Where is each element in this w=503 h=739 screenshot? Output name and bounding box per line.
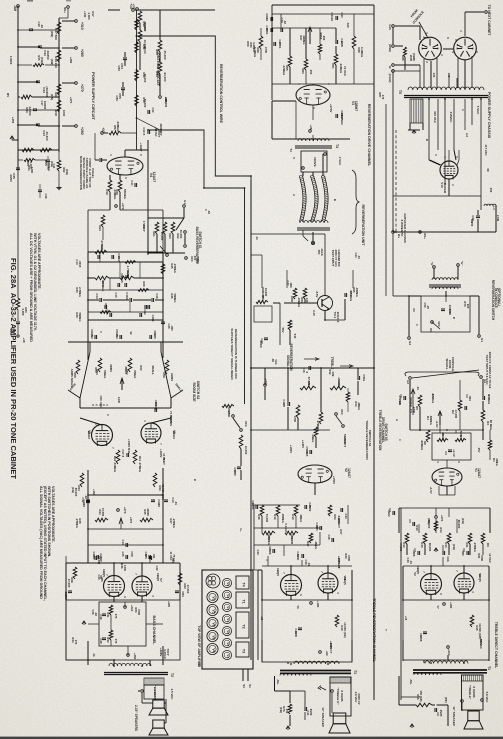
capacitor C20 .02 (270, 17, 272, 21)
svg-text:G2: G2 (408, 341, 412, 345)
resistor R23 (163, 222, 167, 234)
capacitor C19 (151, 499, 155, 501)
svg-text:C64: C64 (181, 591, 185, 597)
resistor R53 arms (98, 358, 102, 372)
svg-text:L1: L1 (492, 206, 496, 210)
resistor M2 (423, 533, 427, 544)
svg-text:.1MEG: .1MEG (299, 514, 303, 522)
svg-text:4 OHMS: 4 OHMS (153, 689, 157, 701)
capacitor C9M 25/25 (434, 708, 436, 712)
svg-text:+260: +260 (80, 127, 84, 135)
resistor R24 (101, 215, 105, 227)
svg-text:C16: C16 (155, 293, 159, 299)
capacitor C17j (287, 402, 289, 406)
svg-text:12AX7: 12AX7 (347, 468, 351, 478)
socket V4b (207, 643, 218, 654)
svg-text:T2: T2 (242, 624, 246, 628)
socket col2 V2 (222, 590, 231, 599)
transformer T2 secondary box BASS 4 OHMS (144, 678, 164, 685)
capacitor C43 (18, 81, 38, 83)
svg-text:+280: +280 (80, 49, 84, 57)
svg-text:.35MEG: .35MEG (281, 513, 285, 523)
label +90L (319, 651, 322, 654)
tube V8 6BQ5 bass (132, 576, 152, 596)
j extra parts (308, 366, 310, 370)
capacitor C58 .005 (68, 590, 72, 592)
svg-text:C38: C38 (327, 535, 331, 540)
svg-text:.5MEG: .5MEG (103, 370, 107, 379)
svg-text:22,000: 22,000 (28, 107, 32, 116)
capacitor C25 (270, 28, 272, 32)
svg-text:4700: 4700 (293, 416, 297, 423)
label +26 (309, 130, 312, 133)
svg-text:1200: 1200 (30, 167, 34, 173)
svg-text:R: R (425, 139, 429, 141)
resistor R42 (138, 30, 142, 42)
resistor R43 (153, 473, 157, 487)
capacitor C41 (46, 159, 50, 161)
svg-text:3.3MEG: 3.3MEG (360, 47, 364, 57)
svg-text:(1W): (1W) (71, 487, 75, 493)
svg-text:.01: .01 (409, 560, 413, 564)
terminal g b (457, 264, 460, 267)
svg-text:WITH VTVM, G1 & G2 GROUNDED.: WITH VTVM, G1 & G2 GROUNDED. LINE VOLTAG… (33, 233, 37, 331)
wire L top (254, 504, 300, 506)
resistor R39 47000 (73, 567, 77, 579)
resistor R2 k (458, 400, 462, 411)
socket col2 V5 (222, 638, 231, 647)
terminal sec bass (141, 690, 144, 693)
terminal pin jack (311, 241, 314, 244)
svg-text:.02: .02 (265, 17, 269, 21)
svg-text:(1W): (1W) (279, 707, 283, 713)
terminal G4 (480, 376, 483, 379)
svg-text:ARMS SMALL: ARMS SMALL (70, 369, 74, 388)
svg-text:25/25: 25/25 (439, 710, 443, 717)
svg-text:V2: V2 (413, 572, 417, 576)
svg-text:+220: +220 (167, 601, 171, 608)
resistor R45 43000 h (140, 518, 153, 522)
wire M xfmr feed (423, 660, 425, 663)
svg-text:+140: +140 (83, 11, 87, 18)
svg-text:R31: R31 (104, 304, 108, 309)
wire L row wires (254, 527, 320, 529)
svg-text:R: R (452, 317, 456, 319)
svg-text:.02: .02 (84, 495, 88, 499)
svg-text:G1: G1 (480, 338, 484, 342)
svg-text:200: 200 (322, 36, 326, 41)
resistor rowL 1 (260, 505, 264, 516)
tone row parts 262 (125, 261, 136, 264)
capacitor C45 (17, 160, 19, 168)
socket col2 V9 (222, 578, 231, 587)
svg-text:+270: +270 (440, 515, 444, 522)
resistor R18 (57, 50, 61, 62)
svg-text:+4.1V: +4.1V (452, 449, 456, 457)
svg-text:270: 270 (114, 639, 118, 644)
svg-text:G: G (395, 419, 399, 421)
svg-text:20/50: 20/50 (9, 174, 13, 182)
capacitor C40L 3300 (298, 627, 302, 629)
capacitor C36L (319, 526, 321, 530)
wire ps left terms (395, 70, 420, 72)
switch contact off (232, 415, 235, 418)
capacitor C35 .0002 (304, 505, 306, 509)
wire control bus (136, 10, 138, 150)
svg-text:R52: R52 (139, 366, 143, 371)
svg-text:2.5 VAC: 2.5 VAC (170, 689, 174, 701)
svg-text:WITH SWITCHES IN POSITIONS SHO: WITH SWITCHES IN POSITIONS SHOWN. (47, 486, 51, 557)
wire L upper verticals (261, 516, 263, 533)
resistor R20 (57, 84, 61, 95)
resistor R17 (57, 22, 61, 34)
svg-text:200: 200 (309, 70, 313, 75)
svg-text:R31: R31 (106, 612, 110, 618)
svg-text:SIGNAL: SIGNAL (286, 355, 290, 367)
resistor rowL 2 (276, 505, 280, 516)
svg-text:+270: +270 (80, 84, 84, 92)
svg-text:GR/OHM 600: GR/OHM 600 (337, 250, 341, 267)
wire rect plumbing (429, 160, 440, 165)
wire console feeds (392, 27, 394, 44)
svg-text:55MEG: 55MEG (123, 189, 127, 200)
svg-text:8 OHMS: 8 OHMS (472, 686, 476, 697)
svg-text:9.4V: 9.4V (312, 310, 316, 316)
svg-text:+140V: +140V (301, 440, 305, 448)
svg-text:.18MEG: .18MEG (355, 287, 359, 297)
wire M col drop (448, 508, 450, 517)
svg-text:+26: +26 (309, 125, 313, 130)
terminal +270 (75, 82, 78, 85)
label +220 (124, 606, 127, 609)
resistor R3 (481, 410, 485, 422)
svg-text:10,000: 10,000 (264, 288, 268, 297)
svg-text:12BH7: 12BH7 (354, 101, 358, 111)
switch S2 right wafer (161, 342, 183, 398)
arrow signal up (412, 390, 414, 415)
svg-text:6.8US: 6.8US (169, 418, 173, 426)
svg-text:5.6 VAC: 5.6 VAC (485, 692, 489, 704)
resistor R48 3.3MEG right (352, 36, 356, 49)
svg-text:C52: C52 (151, 108, 155, 113)
wire v4 bass net (87, 210, 89, 252)
svg-text:2.7MEG: 2.7MEG (126, 266, 130, 277)
svg-text:.0068: .0068 (419, 635, 423, 642)
svg-text:VAC: VAC (274, 359, 278, 365)
svg-text:.5: .5 (142, 133, 146, 136)
resistor R41 mid (133, 450, 137, 464)
svg-text:C: C (415, 324, 419, 326)
svg-text:V7: V7 (436, 605, 440, 609)
svg-text:TO NEXT CABINET: TO NEXT CABINET (487, 5, 491, 37)
svg-text:POWER SUPPLY CIRCUIT: POWER SUPPLY CIRCUIT (91, 72, 96, 120)
svg-text:600/6: 600/6 (259, 341, 263, 348)
switch off j (335, 413, 338, 416)
svg-text:T3: T3 (353, 670, 357, 674)
junction dots 2 (136, 35, 138, 37)
svg-text:5,000: 5,000 (21, 309, 25, 316)
wire bass speakers (141, 693, 143, 703)
resistor R32 270 (109, 630, 113, 640)
svg-text:REVERBERATION UNIT: REVERBERATION UNIT (361, 205, 365, 247)
svg-text:TREBLE DIRECT CHANNEL: TREBLE DIRECT CHANNEL (494, 622, 498, 669)
svg-text:45V: 45V (477, 448, 481, 453)
svg-text:S3: S3 (242, 684, 246, 688)
terminal OFF (185, 257, 188, 260)
junction dots (17, 46, 19, 48)
resistor R66 .1MEG (330, 386, 346, 390)
resistor R19c (108, 180, 112, 192)
svg-text:70 CY: 70 CY (162, 457, 166, 465)
capacitor C52 ctl (147, 110, 149, 114)
wire tone stack verticals (99, 252, 101, 262)
svg-text:R17: R17 (91, 11, 95, 17)
arrow bass mid (119, 518, 123, 524)
wire tone box left (87, 252, 89, 342)
svg-text:120: 120 (432, 73, 436, 78)
svg-text:150VAC: 150VAC (340, 115, 344, 125)
wire control drop (139, 23, 141, 30)
resistor R60 200 (304, 59, 308, 70)
wire tr1 net (273, 302, 280, 304)
svg-text:12 VAC: 12 VAC (488, 553, 492, 563)
svg-text:1000: 1000 (340, 41, 344, 48)
svg-text:12AX7: 12AX7 (152, 172, 156, 183)
svg-text:47,000: 47,000 (186, 585, 190, 594)
svg-text:.0001: .0001 (154, 400, 158, 407)
capacitor C21 (94, 556, 96, 560)
capacitor C55 (121, 87, 125, 89)
socket V6 (207, 617, 218, 628)
wire g box inner (272, 83, 374, 85)
svg-text:.02: .02 (207, 210, 211, 214)
svg-text:.68MEG: .68MEG (420, 440, 424, 450)
svg-text:R19: R19 (273, 514, 277, 520)
wire T5 drops (430, 61, 432, 88)
wire ps loop (480, 99, 482, 196)
wire M stage (402, 566, 404, 600)
svg-text:+15: +15 (404, 616, 408, 621)
svg-text:2000 CY, FROM A3 TO G2: 2000 CY, FROM A3 TO G2 (488, 352, 492, 389)
tube 6BQ5 M2 (454, 573, 474, 593)
terminal +32 input (101, 132, 104, 135)
svg-text:.02: .02 (330, 17, 334, 21)
svg-text:3.3MEG: 3.3MEG (252, 42, 256, 52)
svg-text:68 MEG: 68 MEG (489, 420, 493, 430)
wire L box (257, 570, 259, 660)
svg-text:40/450: 40/450 (46, 51, 50, 60)
svg-text:OFF: OFF (437, 321, 441, 327)
wire M upper verticals (398, 517, 400, 533)
capacitor C44 (18, 124, 38, 126)
svg-text:+180: +180 (316, 601, 320, 608)
wire cathode V4 (109, 175, 111, 180)
svg-text:V8: V8 (212, 635, 216, 639)
transformer T5 sec 1 (410, 99, 423, 123)
svg-text:C3: C3 (444, 451, 448, 455)
terminal MV top (67, 6, 70, 9)
svg-text:V3: V3 (226, 606, 230, 610)
svg-text:ALL DC VOLTAGES ARE + FROM GRO: ALL DC VOLTAGES ARE + FROM GROUND & ARE … (29, 233, 33, 342)
svg-text:(1W): (1W) (461, 518, 465, 524)
capacitor C22 .0001 (335, 40, 337, 44)
svg-text:ARMS: ARMS (109, 364, 113, 372)
svg-text:T5: T5 (398, 90, 402, 94)
resistor R27 top (95, 250, 107, 254)
svg-text:44: 44 (255, 237, 259, 240)
capacitor C54A (119, 335, 121, 339)
svg-text:R13: R13 (444, 542, 448, 548)
svg-text:.004: .004 (468, 395, 472, 401)
resistor R60 1000 box (256, 300, 268, 303)
resistor M3 (447, 533, 451, 544)
svg-text:.0068: .0068 (268, 548, 272, 555)
capacitor C61A (94, 335, 96, 339)
wire k net2 (439, 425, 441, 433)
svg-text:T4: T4 (335, 144, 339, 148)
resistor R62 4300 (293, 288, 297, 299)
capacitor C10 (147, 130, 149, 134)
tube V2 12AX7 (298, 465, 332, 483)
svg-text:.02: .02 (94, 612, 98, 616)
resistor R5 4700 (418, 395, 422, 407)
svg-text:415 VAC: 415 VAC (433, 111, 437, 124)
svg-text:V4: V4 (226, 654, 230, 658)
svg-text:.005: .005 (461, 550, 465, 556)
svg-text:S2: S2 (197, 663, 201, 667)
reverb spring 3 (321, 176, 325, 222)
svg-text:T1: T1 (487, 666, 491, 670)
svg-text:150: 150 (285, 709, 289, 714)
wire tr1 feed (251, 233, 318, 235)
capacitor C45b (16, 321, 20, 323)
svg-text:REVERBERATION CONTROL WIRE: REVERBERATION CONTROL WIRE (219, 64, 223, 124)
svg-text:+32: +32 (101, 127, 105, 133)
svg-text:.27MEG: .27MEG (487, 394, 491, 404)
svg-text:A60: A60 (346, 23, 350, 28)
resistor R64 540 (288, 320, 292, 330)
svg-text:.27MEG: .27MEG (473, 542, 477, 552)
resistor R30 mid (120, 276, 134, 280)
chassis arrow bass (82, 621, 86, 624)
wire x386 (385, 104, 387, 296)
capacitor C38 45MEG (344, 293, 346, 297)
svg-text:117 VAC: 117 VAC (484, 145, 488, 156)
svg-text:270: 270 (74, 640, 78, 645)
resistor R19j (319, 412, 323, 424)
capacitor C27 .001 (148, 555, 150, 559)
M upper extra parts (481, 533, 485, 544)
svg-text:4700: 4700 (227, 411, 231, 418)
capacitor C17 mid (126, 453, 128, 457)
capacitor C40 3300 (301, 554, 303, 558)
svg-text:+270: +270 (123, 507, 127, 514)
svg-text:R10: R10 (291, 514, 295, 520)
svg-text:R39: R39 (115, 189, 119, 195)
svg-text:+90: +90 (325, 651, 329, 656)
svg-text:415VAC: 415VAC (449, 112, 453, 124)
resistor R44 47000 h (95, 518, 108, 522)
capacitor 33/150 (441, 308, 445, 310)
svg-text:.0015: .0015 (78, 261, 82, 268)
arrow from console (419, 22, 427, 36)
speaker bass 2 (149, 720, 168, 735)
tube 6BQ5 M1 (421, 574, 442, 595)
wire tl tie2 (18, 64, 32, 66)
svg-text:REVERBERATION DRIVE CHANNEL: REVERBERATION DRIVE CHANNEL (367, 104, 371, 167)
transistor TR-1 2N1413 (318, 296, 333, 311)
svg-text:"G": "G" (430, 262, 434, 268)
svg-text:OFF: OFF (244, 421, 248, 427)
wire M top (399, 507, 490, 509)
wire bass col left (65, 600, 67, 660)
resistor R67 87000 (300, 386, 316, 390)
svg-text:(OPTIONAL): (OPTIONAL) (497, 288, 501, 306)
svg-text:47B: 47B (331, 372, 335, 377)
svg-text:4700: 4700 (130, 551, 134, 557)
transformer T3 core (280, 670, 351, 672)
resistor R88 2000 (404, 47, 407, 57)
svg-text:C: C (461, 109, 465, 111)
svg-text:(G1A2): (G1A2) (388, 74, 392, 83)
rectifier tube big 1 (419, 37, 442, 60)
svg-text:SWITCH S1: SWITCH S1 (198, 231, 202, 248)
block T3 (236, 642, 249, 657)
capacitor C7L (272, 549, 274, 553)
box bass output stage (66, 600, 180, 660)
svg-text:C14: C14 (121, 540, 125, 545)
wire stair B (137, 36, 252, 182)
capacitor C46 grid (99, 158, 101, 162)
svg-text:.1MEG: .1MEG (357, 402, 361, 410)
transformer T4 core (295, 145, 332, 147)
svg-text:R60: R60 (301, 68, 305, 74)
terminal -AM (17, 5, 20, 8)
block T4 (236, 576, 249, 589)
svg-text:C25: C25 (121, 552, 125, 557)
svg-text:.001: .001 (152, 554, 156, 560)
svg-text:+270: +270 (129, 517, 133, 524)
svg-text:(OND): (OND) (388, 44, 392, 52)
can caps C62 C63 C64 (206, 574, 220, 588)
svg-text:C34: C34 (344, 514, 348, 519)
L upper extra parts (328, 505, 332, 516)
svg-text:12" SPEAKER: 12" SPEAKER (321, 707, 325, 727)
svg-text:G10: G10 (388, 24, 392, 30)
svg-text:56MEG: 56MEG (78, 312, 82, 321)
svg-text:R24: R24 (333, 515, 337, 520)
resistor R18j 4700 (296, 405, 300, 418)
wire wafers to caps (79, 398, 81, 408)
transformer T1 primary (425, 661, 468, 664)
svg-text:.0002: .0002 (308, 505, 312, 512)
scan border bottom (0, 737, 503, 739)
svg-text:+308V: +308V (159, 648, 163, 658)
resistor R57 (104, 132, 108, 134)
M upper wire (482, 544, 484, 555)
terminal G3 (409, 377, 412, 380)
wire k more (459, 380, 461, 400)
svg-text:VOLTAGES ARE APPROXIMATE.: VOLTAGES ARE APPROXIMATE. (51, 486, 55, 543)
svg-text:C27: C27 (144, 552, 148, 557)
wire rect tube drops (423, 59, 425, 88)
amplifier top view box (202, 570, 253, 669)
wire direct drop (240, 449, 242, 466)
svg-text:SWITCH S2: SWITCH S2 (196, 381, 200, 400)
svg-text:SMALL: SMALL (151, 365, 155, 375)
wire bass bottom (87, 646, 89, 665)
svg-text:.0001: .0001 (278, 42, 282, 49)
